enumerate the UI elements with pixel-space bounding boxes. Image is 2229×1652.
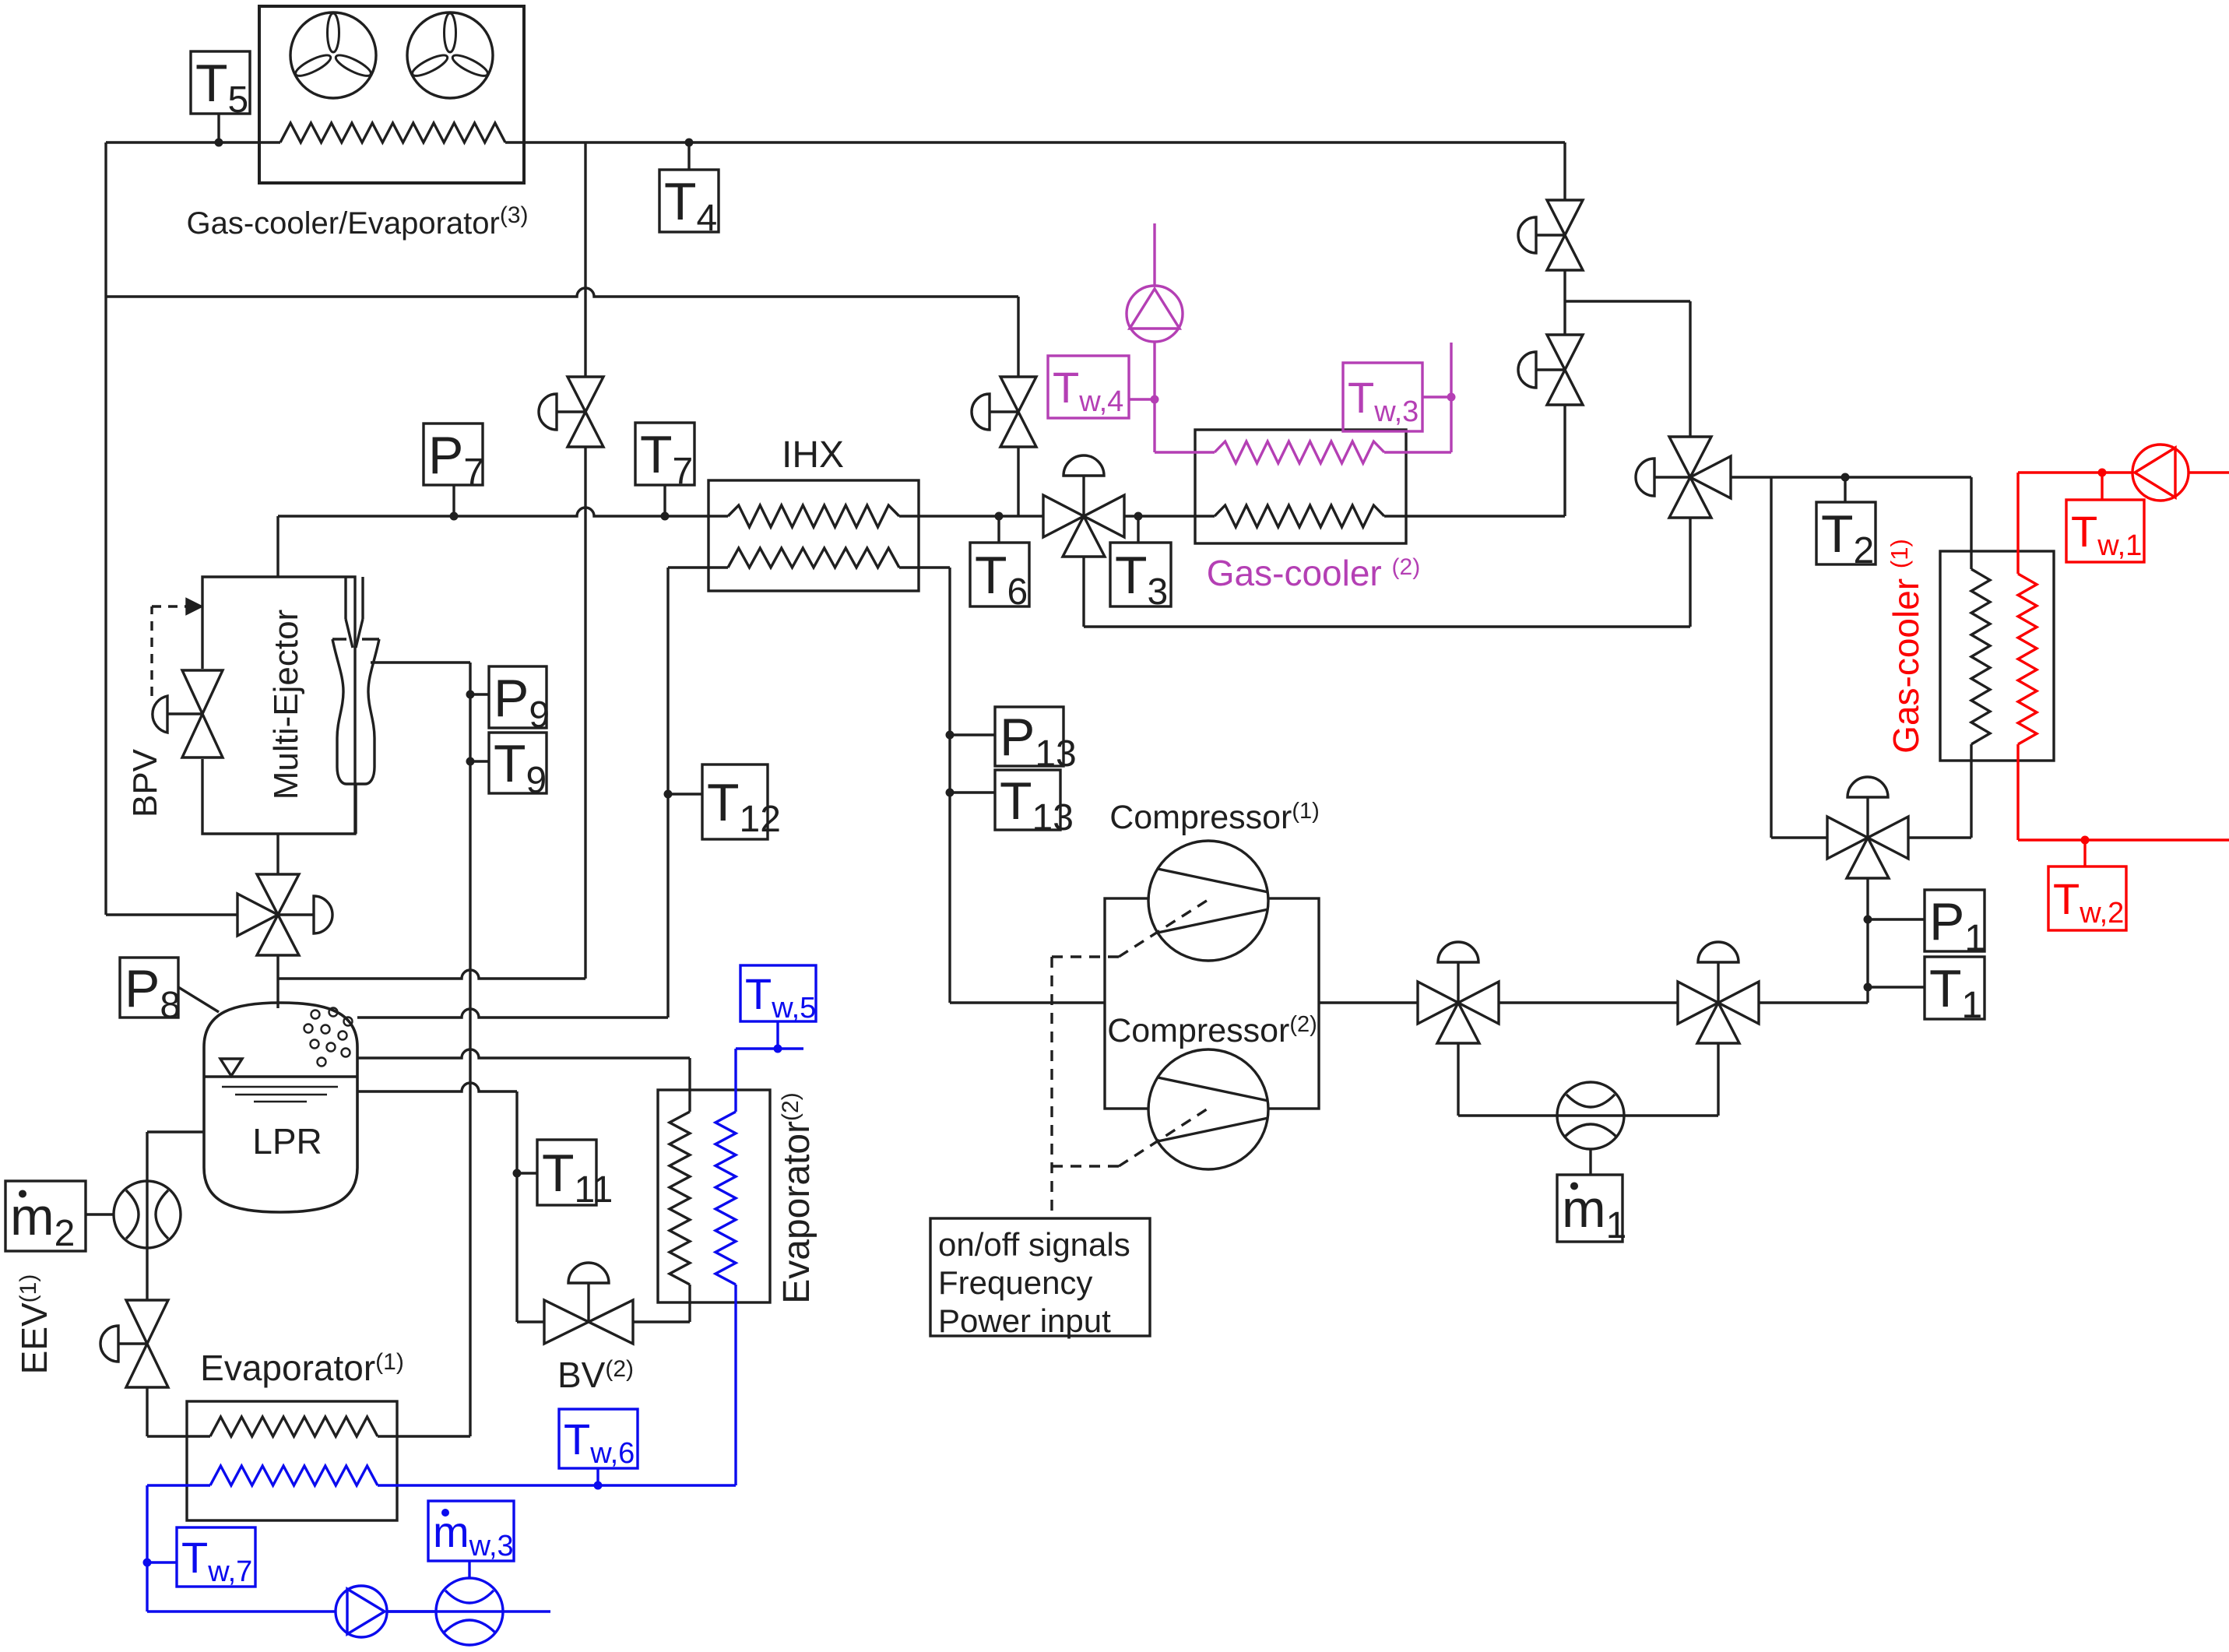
red water return down [2016, 744, 2019, 840]
sensor Tw,3 [1343, 363, 1422, 431]
wire evaporator(1) outlet to suction riser [378, 1435, 470, 1437]
heat-exchanger Evaporator(2) box [658, 1090, 770, 1302]
control dashed line to BPV [150, 606, 153, 696]
blue node Tw7 tap [143, 1559, 152, 1567]
svg-text:BPV: BPV [126, 748, 164, 817]
valve B (second shut-off with actuator) [1547, 335, 1583, 370]
wire LPR to BV(2) branch [357, 1083, 517, 1091]
wire gas-cooler/evap(3) second line [106, 288, 1018, 297]
sensor T3 [1134, 512, 1143, 521]
compressor 2 [1148, 1049, 1268, 1169]
sensor T11 [513, 1169, 522, 1178]
heat-exchanger IHX box [708, 480, 919, 591]
wire IHX cold out [919, 566, 950, 568]
wire between valves A,B [1563, 270, 1566, 335]
valve C (evap(3) line valve) [1000, 377, 1036, 412]
heat-exchanger Gas-cooler(2) box [1195, 430, 1406, 543]
heat-exchanger Gas-cooler(1) box [1940, 551, 2054, 761]
coil evaporator(1) CO2 side [210, 1417, 378, 1436]
coil IHX cold side [728, 548, 899, 568]
wire V-LPR down into LPR [276, 955, 279, 1008]
wire suction riser x=604 [469, 663, 471, 1436]
wire IHX cold in from LPR riser [668, 566, 708, 568]
wire bypass up to V-HP bottom [1689, 518, 1691, 627]
3-way valve V-D2 [1678, 982, 1718, 1024]
svg-text:Power input: Power input [938, 1302, 1111, 1339]
3-way valve V-IHX [1043, 495, 1084, 537]
flow meter m1 [1557, 1082, 1624, 1149]
wire down to suction line [948, 568, 951, 1003]
magenta node Tw3 tap [1447, 393, 1456, 402]
sensor Tw,2 [2048, 866, 2126, 930]
sensor T5 [191, 51, 250, 114]
wire V-D1 to V-D2 [1499, 1001, 1678, 1004]
wire top line down (x=752) [584, 142, 586, 377]
coil evaporator(2) CO2 side [670, 1112, 690, 1285]
wire V-IHX bottom down [1082, 557, 1085, 627]
wire left vertical x=136 [104, 142, 107, 915]
wire bypass under gas-cooler(2) [1084, 625, 1690, 627]
valve EEV(1) [126, 1300, 168, 1344]
magenta node Tw4 tap [1151, 395, 1159, 404]
control dashed lines to compressors [1050, 957, 1053, 1218]
wire main line down into multi-ejector [276, 516, 279, 577]
magenta water out of coil [1384, 451, 1451, 453]
sensor Tw,1 [2066, 500, 2144, 562]
sensor T2 [1841, 473, 1850, 482]
sensor P7 [450, 512, 459, 521]
sensor Tw,5 [740, 965, 816, 1021]
blue water line down [146, 1485, 148, 1612]
wire m1 line up to V-D2 bottom [1717, 1043, 1719, 1116]
wire into evaporator(1) [147, 1435, 210, 1437]
magenta water inlet stub [1153, 223, 1155, 286]
wire V-HP to gas-cooler(1) [1731, 476, 1971, 478]
wire coil top stub [688, 1058, 691, 1112]
sensor T1 [1864, 983, 1872, 992]
svg-text:LPR: LPR [252, 1121, 322, 1162]
arrowhead of BPV signal [187, 599, 201, 613]
wire LPR liquid to evaporator(2) [357, 1049, 690, 1058]
wire V-GC1 down to discharge line [1866, 878, 1869, 1003]
heat-exchanger Evaporator(1) box [187, 1401, 397, 1520]
valve BV(2) [544, 1300, 589, 1344]
pump P-w1 (red water pump) [2132, 445, 2189, 501]
red water line to pump [2018, 471, 2132, 473]
3-way valve V-HP (high pressure split) [1669, 437, 1711, 477]
svg-text:Compressor(1): Compressor(1) [1109, 799, 1320, 836]
svg-text:Evaporator(2): Evaporator(2) [776, 1092, 817, 1303]
sensor P9 [466, 691, 475, 699]
wire P8 tap into LPR dome [178, 987, 219, 1012]
svg-text:Compressor(2): Compressor(2) [1107, 1012, 1317, 1049]
wire down to valve C [1017, 297, 1019, 377]
wire V-D1 down to flow meter m1 [1457, 1043, 1459, 1116]
coil gas-cooler(1) CO2 side [1971, 569, 1990, 744]
wire main line P7..IHX with hop [278, 508, 728, 516]
compressor rack manifold [1105, 898, 1319, 1109]
svg-text:Gas-cooler (1): Gas-cooler (1) [1886, 539, 1926, 754]
svg-text:Gas-cooler (2): Gas-cooler (2) [1207, 553, 1420, 593]
coil gas-cooler(2) water side [1215, 441, 1384, 463]
wire suction line into compressor rack [950, 1001, 1105, 1004]
wire V-IHX to gas-cooler(2) [1124, 515, 1215, 517]
LPR level line 2 [222, 1086, 338, 1088]
red water return line right [2018, 838, 2229, 841]
blue bottom water line [147, 1610, 336, 1612]
wire valve D down to LPR branch [584, 447, 586, 979]
wire gas-cooler(1) bypass vertical [1770, 477, 1772, 838]
wire valve B down to gas-cooler(2) line [1563, 405, 1566, 516]
wire down to valve A [1563, 142, 1566, 200]
svg-text:Gas-cooler/Evaporator(3): Gas-cooler/Evaporator(3) [186, 202, 528, 241]
blue water stub right [387, 1610, 550, 1612]
blue water line left [147, 1484, 210, 1486]
coil gas-cooler(1) water side [2018, 574, 2037, 744]
sensor P13 [946, 731, 955, 740]
control box on/off signals [930, 1218, 1150, 1336]
flow meter m2 [114, 1181, 181, 1248]
wire discharge line to valve V-D1 [1319, 1001, 1418, 1004]
wire LPR vapor to IHX riser [357, 1009, 668, 1018]
magenta water outlet stub up [1450, 343, 1452, 452]
valve D (flash gas / evap(3) valve) [568, 377, 603, 412]
sensor T9 [466, 757, 475, 766]
3-way valve V-LPR (ejector outlet) [257, 874, 299, 915]
valve A (top right shut-off with actuator) [1547, 200, 1583, 235]
wire m2 to EEV [146, 1182, 148, 1300]
LPR level marker triangle [220, 1059, 242, 1076]
wire gas-cooler(1) outlet to 3-way valve V-GC1 [1908, 836, 1971, 838]
sensor P8 [120, 958, 178, 1018]
svg-text:on/off signals: on/off signals [938, 1226, 1130, 1263]
sensor P1 [1864, 916, 1872, 924]
wire branch to 3-way valve V-HP [1565, 300, 1690, 302]
wire riser x=858 down to LPR [666, 568, 669, 1018]
sensor mw,3 tag [428, 1501, 514, 1561]
wire V-D2 to P1/T1 node [1759, 1001, 1868, 1004]
magenta water into coil [1155, 451, 1215, 453]
sensor T4 [685, 139, 694, 147]
heat-exchanger Gas-cooler/Evaporator(3) box [259, 6, 524, 183]
svg-text:IHX: IHX [782, 434, 844, 476]
coil evaporator(2) water side [715, 1112, 736, 1285]
pump P-w3 (blue water pump) [336, 1586, 387, 1637]
magenta water line down [1153, 342, 1155, 452]
wire ejector outlet down [276, 834, 279, 874]
coil evaporator(1) water side [210, 1466, 378, 1485]
ejector venturi symbol [344, 577, 346, 619]
sensor Tw,6 [559, 1409, 638, 1468]
blue water down into coil [734, 1049, 737, 1112]
fan 2 of Gas-cooler/Evaporator(3) [407, 12, 493, 98]
red node Tw2 tap [2081, 836, 2090, 845]
LPR liquid level line [204, 1075, 357, 1077]
fan 1 of Gas-cooler/Evaporator(3) [290, 12, 376, 98]
wire LPR flash line to valve D riser [278, 970, 585, 979]
sensor Tw,4 [1048, 356, 1129, 418]
wire bypass to V-GC1 left [1771, 836, 1827, 838]
sensor T7 [661, 512, 670, 521]
vessel LPR [204, 1003, 357, 1212]
wire down to BV(2) [515, 1091, 518, 1322]
wire top main right segment [505, 141, 1565, 143]
wire coil bottom to BV(2) [688, 1285, 691, 1322]
wire IHX to 3-way valve V-IHX [899, 515, 1043, 517]
wire evap(3) return to V-LPR [106, 913, 237, 916]
wire EEV down [146, 1387, 148, 1436]
sensor T12 [664, 790, 673, 799]
wire LPR liquid out left [147, 1130, 204, 1133]
wire gas-cooler(1) outlet down [1970, 744, 1972, 838]
wire into gas-cooler(1) CO2 coil [1970, 477, 1972, 569]
blue water inlet stub [736, 1047, 803, 1049]
blue water out down to Tw6 line [734, 1285, 737, 1485]
svg-text:Multi-Ejector: Multi-Ejector [267, 610, 305, 800]
coil gas-cooler(2) CO2 side [1215, 505, 1384, 527]
compressor 1 [1148, 841, 1268, 961]
blue node Tw6 tap [594, 1482, 603, 1490]
red node Tw1 tap [2098, 469, 2107, 477]
multi-ejector block outline [202, 577, 355, 834]
sensor Tw,7 [177, 1527, 255, 1587]
wire ejector suction port [371, 661, 470, 663]
red water line out right [2189, 471, 2229, 473]
valve BPV (bypass) [182, 670, 223, 714]
coil IHX hot side [728, 505, 899, 527]
flow meter mw,3 [436, 1578, 503, 1645]
sensor T6 [995, 512, 1004, 521]
blue water line to evaporator(2) [378, 1484, 736, 1486]
3-way valve V-GC1 (gas-cooler(1) outlet/bypass mix) [1827, 817, 1868, 859]
LPR level line 4 [254, 1101, 307, 1103]
wire valve C to main line [1017, 447, 1019, 516]
LPR level line 3 [235, 1094, 327, 1096]
sensor m2 tag [5, 1181, 86, 1251]
LPR bubbles [311, 1011, 320, 1019]
sensor T13 [946, 789, 955, 797]
pump P-w2 (magenta water pump) [1127, 286, 1183, 342]
wire gas-cooler(2) out to valve B [1384, 515, 1565, 517]
red water supply down [2016, 473, 2019, 574]
svg-text:Frequency: Frequency [938, 1264, 1092, 1301]
svg-text:Evaporator(1): Evaporator(1) [200, 1348, 404, 1388]
3-way valve V-D1 (discharge) [1418, 982, 1458, 1024]
blue node Tw5 tap [774, 1045, 782, 1053]
wire down into 3-way valve V-HP [1689, 301, 1691, 437]
coil of Gas-cooler/Evaporator(3) [280, 123, 505, 142]
wire top main left segment [106, 141, 280, 143]
